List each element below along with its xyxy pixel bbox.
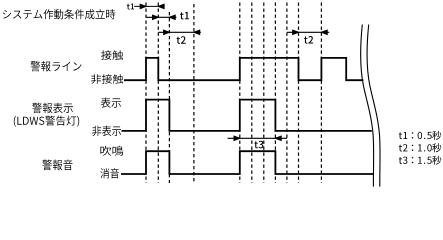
break symbol: left wavy line [361,25,374,187]
label: t1 (first dimension) [127,4,134,10]
dimension t1 (first, top row) arrow line [134,5,164,7]
dimension t1 (second) right arrowhead [169,15,175,19]
label: 非表示 (not displayed) [92,126,121,137]
dashed timing guide line: re-contact start (x=321.4) [320,3,322,184]
dashed timing guide line: second +t3 alarm end (x=275.4) [274,3,276,184]
dimension t2 (right) right arrowhead [321,30,327,34]
dimension t2 (right) left arrowhead [293,30,299,34]
dimension t3 left arrowhead [234,136,240,140]
wire: waveform row 1 警報ライン (alarm line) contact pulses [124,58,363,80]
label: 表示 (displayed) [101,98,121,108]
dimension t3 right arrowhead [275,136,281,140]
dashed timing guide line: T0 contact start (x=146.0) [145,3,147,184]
dimension t2 (right) arrow line [287,31,329,33]
label: t1 (second dimension) [180,12,189,20]
label: システム作動条件成立時 (when system operating conditions are met) [3,9,116,19]
dashed timing guide line: T0+t1 contact end (x=158.3) [157,3,159,184]
label: t3 dimension [254,141,263,149]
label: 吹鳴 (sounding) [100,146,123,156]
wire: waveform row 3 警報音 (alarm sound) pulses [121,151,374,174]
label: 警報音 (alarm sound) [42,160,72,171]
label: t2 (right dimension) [304,36,313,44]
dimension t1 (first) right arrowhead [158,4,164,8]
label: 接触 (contact) [101,50,123,60]
dashed timing guide line: second contact start (x=239.8) [239,3,241,184]
dashed timing guide line: T0+t1 alarm hold end (x=169.4) [168,12,170,183]
label: (LDWS警告灯) (LDWS warning lamp) [14,116,79,127]
dimension t1 (second) left arrowhead [153,15,159,19]
label: 非接触 (no contact) [91,74,123,84]
dimension t2 (left) right arrowhead [194,30,200,34]
label: 消音 (muted) [100,168,119,178]
dimension t2 (left) left arrowhead [164,30,170,34]
legend line 3: t3：1.5秒 [399,156,441,165]
dimension t1 (first) left arrowhead [140,4,146,8]
break symbol: right wavy line [367,25,380,187]
dashed timing guide line: second +t3+t1 (x=286.9) [286,3,288,184]
label: 警報表示 (alarm indication) [32,103,73,113]
legend line 1: t1：0.5秒 [399,131,441,140]
dashed timing guide line: T0 left t2 end (x=193.9) [193,4,195,183]
legend line 2: t2：1.0秒 [399,143,441,152]
dashed timing guide line: second +1.0s (x=263.8) [263,3,265,184]
dimension t2 (left) arrow line [158,31,201,33]
label: t2 (left dimension) [177,36,186,44]
dashed timing guide line: second +0.5s (x=251.8) [251,3,253,184]
wire: waveform row 2 警報表示 (alarm indicator) pulses [122,100,372,131]
dimension t1 (second row) arrow line [146,16,176,18]
dimension t3 arrow line [228,137,287,139]
dashed timing guide line: second contact end (x=298.5) [298,3,300,184]
label: 警報ライン (alarm line) [31,61,82,71]
